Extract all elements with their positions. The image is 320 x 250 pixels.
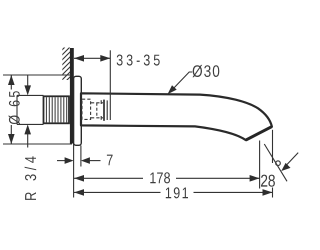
flange (escutcheon) — [74, 76, 82, 145]
label Ø30 with leader — [168, 65, 220, 94]
28° angle reference line — [264, 144, 287, 181]
dimension 7 — [57, 155, 113, 166]
dimension 33-35 — [74, 55, 160, 66]
178 right extension line — [259, 141, 261, 189]
33-35 extension line — [109, 50, 111, 120]
pipe thread R 3/4 — [44, 96, 70, 123]
spout body — [81, 93, 272, 140]
dimension 178 — [74, 172, 260, 183]
spout outlet face (28° cut) — [246, 127, 272, 141]
dimension 191 — [74, 187, 273, 198]
label 28° — [261, 161, 280, 187]
wall hatch — [52, 20, 82, 115]
191 right extension line — [272, 130, 274, 198]
28° leader arrow — [281, 153, 298, 171]
wall face — [70, 48, 74, 144]
dimension R 3/4 — [24, 75, 36, 200]
hidden insert bracket — [101, 100, 107, 121]
dimension Ø65 — [3, 75, 72, 144]
supply pipe — [17, 95, 44, 124]
flange front extension line — [80, 146, 82, 167]
wall face extension line — [73, 144, 75, 198]
hidden internals (dashed) — [82, 99, 103, 119]
